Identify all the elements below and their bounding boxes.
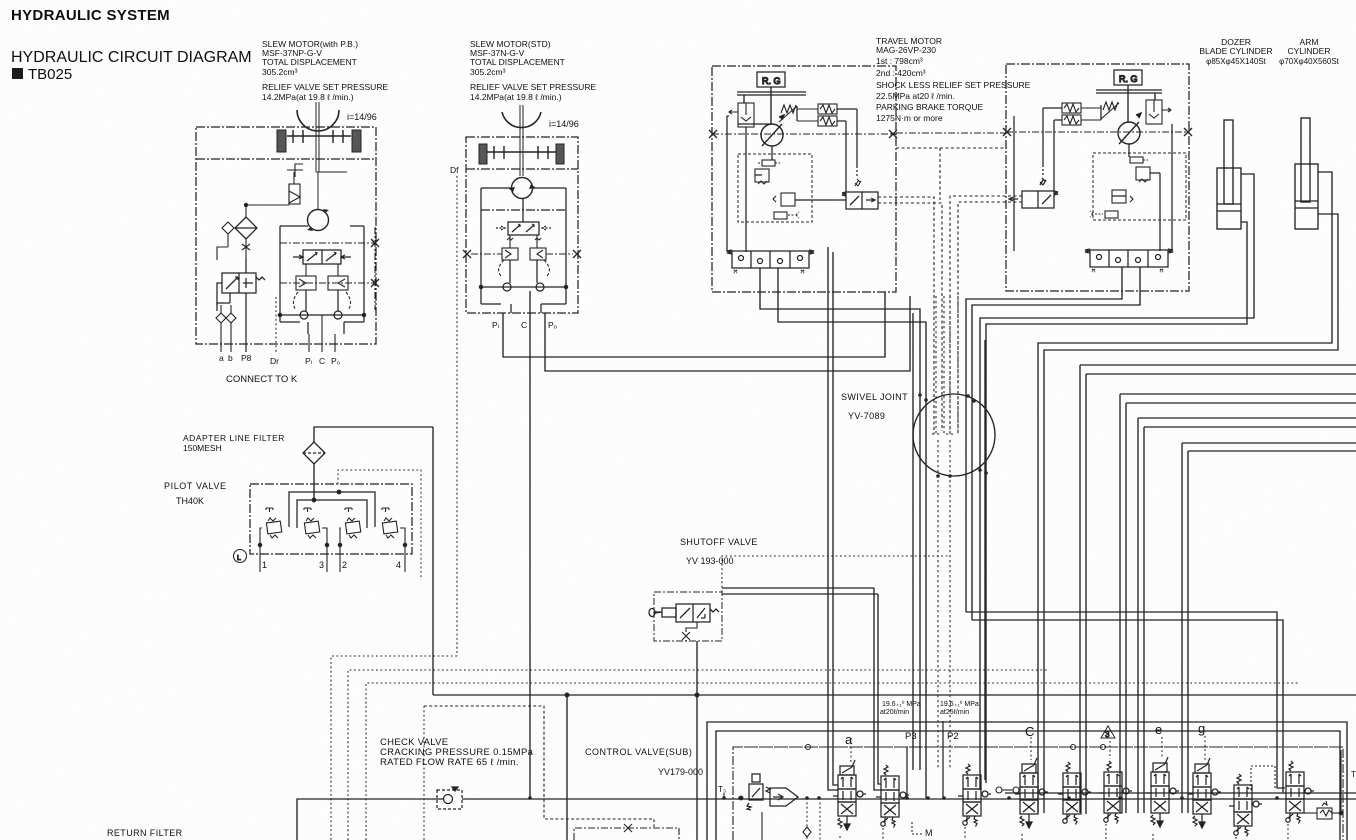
wire pilot drain dotted at inlet: [819, 798, 821, 840]
slew2 PL port line to travel-L: [503, 292, 885, 357]
gear bar travel-R: [1096, 85, 1162, 122]
label pressure spec 1: [880, 700, 921, 716]
spool P3 section: [876, 765, 909, 828]
wire third travel line: [912, 313, 914, 770]
spool c blade: [1015, 758, 1048, 828]
arm cylinder: [1295, 118, 1318, 229]
travel-R counterbalance parts: [1090, 157, 1150, 218]
arm cylinder lines: [1038, 172, 1338, 813]
pilot reducing valve 2: [338, 508, 360, 572]
warning triangle: [1101, 726, 1115, 739]
travel-L output lines down: [760, 268, 926, 798]
parking brake cylinder travel-L: [729, 103, 754, 127]
pilot filter diamond: [235, 217, 257, 239]
gear bar: [287, 130, 351, 143]
shaft 2: [519, 105, 521, 176]
adapter line filter diamond: [303, 442, 325, 464]
inlet main relief: [766, 787, 798, 806]
slew1 inner work-port box: [280, 226, 364, 334]
swivel bundle dashed pilot lines: [932, 296, 958, 770]
gear bar 2: [487, 146, 556, 159]
engine coupling arc: [297, 110, 339, 131]
shutoff valve dashed box: [654, 592, 722, 641]
wire inter-motor dash-dot crossline: [896, 132, 1006, 134]
travel-R motor work lines: [1014, 105, 1172, 251]
shock relief spring travel-R: [1103, 102, 1118, 110]
wire P2 supply vertical: [942, 721, 944, 798]
spool section 6: [1099, 761, 1132, 824]
wire dashed drop from link: [939, 148, 941, 200]
slew1 directional control spool: [293, 250, 351, 264]
slew2 check circles: [479, 260, 567, 291]
shutoff valve body: [649, 604, 719, 622]
wire pilot dotted L2: [348, 670, 1048, 840]
spool section 9: [1229, 774, 1262, 837]
travel-R output lines down to swivel: [966, 267, 1140, 620]
travel motor left block outline: [712, 66, 896, 292]
pilot reducing valve 1: [258, 508, 281, 572]
spool section 10: [1281, 761, 1314, 824]
slew2 X marks: [463, 250, 581, 258]
wire boom lines pair: [1120, 394, 1356, 813]
slew motor 1 circle: [308, 210, 329, 231]
label slew motor STD specs: [470, 39, 596, 102]
check diamonds a b ports: [216, 305, 236, 352]
pilot valve dotted box: [338, 470, 421, 580]
relief valve end section: [1304, 750, 1343, 819]
label slew motor with P.B. specs: [262, 39, 388, 102]
wire bucket lines pair: [1138, 418, 1356, 813]
wire main supply horizontal: [433, 693, 1356, 697]
control valve outer box A: [707, 722, 1347, 840]
gear step symbol: [287, 164, 347, 177]
slew2 inner box: [481, 188, 566, 313]
relief cartridges travel-L: [797, 104, 837, 126]
slew2 displacement control: [496, 199, 551, 235]
return line dash-dot box bottom: [574, 828, 679, 840]
slew motor 2 circle: [512, 178, 533, 199]
throttle X marks right edge: [371, 239, 379, 287]
shutoff pilot dotted to swivel: [722, 556, 950, 592]
control valve outer box B: [716, 731, 1340, 840]
swivel extra line: [984, 340, 986, 780]
label arm cylinder: [1279, 37, 1340, 66]
spool g bucket: [1188, 758, 1221, 828]
control valve dash-dot box: [733, 747, 1343, 840]
travel motor right block outline: [1006, 64, 1189, 291]
label check valve: [380, 737, 534, 768]
travel motor R circle: [1118, 113, 1141, 144]
wire dotted branch to check region: [424, 706, 654, 827]
travel-L brake shift valve: [842, 166, 878, 209]
wire inter-motor dashed link: [896, 147, 1007, 149]
slew2 C line long down to bus: [529, 291, 531, 798]
X marks travel-L: [709, 130, 897, 138]
slew1 check circles line: [278, 290, 365, 319]
pilot supply busses: [289, 490, 375, 528]
wire filter to supply: [314, 427, 433, 695]
gear bar travel-L: [737, 87, 806, 124]
pilot reducing valve 3: [304, 508, 329, 572]
node line filter top: [244, 184, 289, 217]
pilot valve dash-dot box: [250, 484, 412, 554]
gear mount hatching left: [277, 130, 361, 152]
X marks travel-R: [1003, 128, 1192, 136]
wire vertical to bottom: [566, 695, 568, 840]
travel-R inner dashed box: [1093, 153, 1186, 220]
label dozer blade cylinder: [1199, 37, 1272, 66]
swivel joint circle: [913, 394, 995, 476]
throttle X on return branch: [624, 824, 632, 832]
travel-L motor work lines: [727, 106, 857, 252]
engine coupling arc 2: [502, 112, 541, 128]
R.G box right: [1114, 70, 1142, 85]
shuttle diamond small: [222, 222, 234, 234]
label pressure spec 2: [940, 700, 979, 716]
travel-R parking pilot dashed: [950, 196, 1022, 434]
dozer cylinder lines: [980, 174, 1254, 790]
slew1 port stubs: [276, 297, 335, 352]
wire pilot dotted L3: [366, 683, 1300, 840]
travel-L counterbalance parts: [755, 160, 799, 219]
check valve symbol: [437, 787, 462, 809]
travel-R crossline dash-dot: [1006, 131, 1189, 133]
travel-L inner dashed box: [738, 154, 812, 222]
wire dotted label leaders: [851, 736, 1205, 762]
travel motor L circle: [761, 115, 784, 146]
travel-R brake shift valve: [1009, 165, 1058, 208]
slew motor STD block outline: [466, 137, 578, 313]
slew1 counterbalance relief pair: [293, 264, 350, 310]
swivel junction dots: [918, 393, 988, 478]
wire T3 bus junctions: [722, 796, 1279, 800]
shutoff drain throttle: [682, 622, 697, 840]
travel-R shuttle valve: [1085, 249, 1173, 272]
slew2 port labels: [492, 320, 557, 330]
inlet check small valve: [739, 774, 763, 810]
wire travel-L lines vertical x920 bundle guides: [722, 588, 881, 790]
pilot dash-dot circles: [806, 745, 1106, 750]
spool e arm: [1146, 757, 1179, 827]
slew motor with P.B. block outline: [196, 127, 376, 344]
spool section 5: [1058, 762, 1091, 825]
parking brake cylinder travel-R: [1146, 100, 1171, 124]
shock relief spring travel-L: [781, 105, 796, 113]
label travel motor specs: [876, 36, 1031, 123]
slew2 Dr dotted drain line: [456, 176, 458, 656]
wire aux lines pair: [1182, 443, 1356, 813]
slew1 crossover dash-dot right: [280, 227, 375, 310]
wire travel lines to far spool pair: [966, 612, 1285, 792]
spool P2 section: [958, 764, 991, 827]
pilot reducing valve 4: [382, 508, 407, 572]
travel-L shuttle valve: [727, 250, 814, 273]
slew2 Pe port line: [545, 296, 910, 371]
throttle X below filter: [217, 234, 250, 260]
label TB025: [12, 68, 23, 79]
relief cartridges travel-R: [1062, 103, 1101, 125]
wire spool pilot drains dotted: [840, 824, 1288, 840]
pilot M box: [912, 822, 922, 834]
wire P3 pilot vertical: [906, 747, 908, 798]
travel-L parking pilot dashed lines: [878, 197, 942, 434]
drive shaft: [315, 102, 317, 172]
gear mount hatch 2: [479, 144, 487, 164]
slew1 port labels: [219, 353, 340, 366]
wire pilot dotted L1: [331, 656, 457, 840]
wire main return bus: [297, 799, 1356, 840]
wire pilot line dash-dot: [733, 746, 1343, 748]
brake cartridge: [289, 172, 300, 204]
travel-L crossline dash-dot: [712, 133, 896, 135]
solenoid valve slew1: [217, 258, 265, 352]
wire bus line 2: [1005, 792, 1356, 794]
tank drain dotted with check diamond: [762, 798, 811, 840]
slew2 counterbalance pair: [499, 235, 550, 276]
wire speed-change lines to right edge: [1080, 365, 1356, 814]
travel-L spool supply drop lines: [828, 247, 838, 790]
R.G box left: [757, 72, 785, 87]
pilot port numbers: [262, 560, 401, 570]
dozer blade cylinder: [1217, 120, 1241, 229]
check circles inter-spool: [996, 787, 1019, 793]
spool a boom swing: [833, 760, 866, 830]
spool 9 dashed pilot box: [1251, 766, 1275, 790]
pilot valve L port circle: [234, 550, 247, 563]
